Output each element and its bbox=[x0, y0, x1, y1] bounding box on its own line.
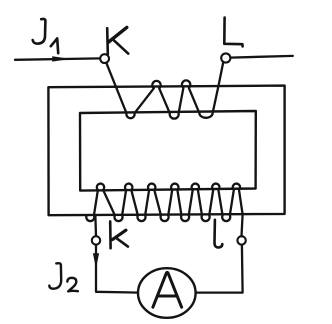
primary winding (3 turns over top limb) bbox=[106, 62, 223, 118]
transformer core (inner edge of toroid) bbox=[80, 111, 256, 191]
wire J1 input bbox=[15, 58, 100, 59]
label k bbox=[110, 221, 128, 248]
label l bbox=[214, 220, 222, 248]
current arrow J2 bbox=[93, 253, 99, 268]
wire down from terminal k to corner bbox=[96, 245, 138, 293]
ammeter body bbox=[138, 268, 196, 318]
label J1 bbox=[33, 19, 59, 53]
wire L output bbox=[231, 56, 293, 58]
label L bbox=[224, 18, 242, 47]
label J2 bbox=[49, 263, 78, 291]
wire secondary right lead bbox=[242, 214, 243, 236]
terminal k bbox=[92, 236, 100, 244]
wire secondary left lead bbox=[94, 217, 97, 237]
current arrow J1 bbox=[52, 56, 70, 61]
wire from ammeter to right corner and up bbox=[196, 245, 243, 293]
ammeter label A bbox=[153, 272, 182, 307]
secondary winding (7 turns under bottom limb) bbox=[86, 184, 242, 222]
terminal K bbox=[100, 54, 109, 63]
label K bbox=[107, 27, 128, 54]
terminal L bbox=[221, 53, 230, 62]
terminal l bbox=[237, 236, 245, 244]
transformer core (outer edge of toroid) bbox=[48, 86, 284, 216]
